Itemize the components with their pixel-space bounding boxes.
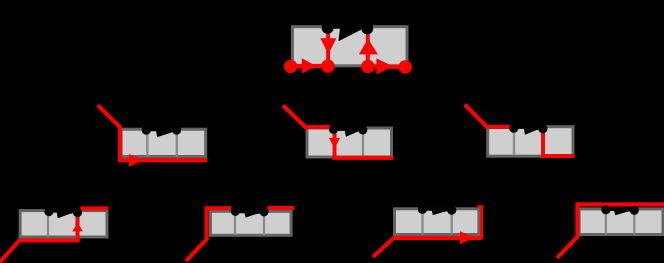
node B3 black wedge arrow (422, 207, 451, 215)
node T box (root 3-node) (292, 27, 407, 66)
node B1 divider 2 (75, 212, 77, 237)
node B3 red path (diagonal + bottom) (373, 238, 481, 257)
node B1 box (bottom 1) (20, 211, 107, 237)
node MC red vline down arrow (333, 127, 337, 159)
node MR red path (diagonal + top edge) (465, 105, 511, 127)
node T red dot 4 (399, 60, 412, 73)
node B3 red arrowhead (460, 231, 475, 244)
node B3 divider 2 (451, 210, 453, 234)
node B1 black dot left (44, 207, 53, 216)
node MR black dot right (538, 124, 547, 133)
node ML red arrowhead (129, 154, 144, 167)
node B1 black dot right (73, 208, 82, 217)
node B1 black wedge arrow (49, 209, 78, 218)
node ML divider 1 (146, 131, 148, 157)
node MR red vline (541, 129, 545, 157)
node ML black wedge arrow (146, 127, 177, 137)
node B3 box (bottom 3) (395, 209, 479, 235)
node B1 divider 1 (47, 212, 49, 237)
node MR box (middle-right) (488, 127, 573, 157)
node T red dot 3 (361, 60, 374, 73)
node B2 black dot right (259, 207, 268, 216)
node B1 red vline up arrow (76, 213, 80, 242)
node B3 red right edge line (480, 205, 483, 239)
node B4 divider 2 (633, 210, 635, 234)
node T red vline up arrow (366, 29, 370, 67)
node MC black wedge arrow (334, 126, 363, 137)
node MR divider 1 (513, 129, 515, 155)
node T red dot 2 (321, 59, 334, 72)
node MR red bottom line (541, 154, 574, 158)
node MC red bottom line (332, 156, 393, 160)
node T black dot right (361, 22, 373, 34)
node B4 black wedge arrow (606, 207, 634, 215)
node MC box (middle-center) (307, 128, 392, 157)
node B2 black dot left (231, 207, 240, 216)
node T red hline arrow left (dot to dot) (291, 64, 328, 68)
node B2 divider 2 (263, 213, 265, 235)
node ML box (middle-left) (121, 129, 206, 156)
node MC red path (diagonal + top edge) (283, 106, 330, 128)
node B2 box (bottom 2) (210, 211, 291, 235)
node B4 black dot left (601, 205, 610, 214)
node ML black dot right (172, 126, 181, 135)
node B4 red path (diagonal, left edge, top) (557, 204, 664, 258)
node B1 red path (diagonal + bottom) (0, 240, 80, 262)
node B4 black dot right (630, 206, 639, 215)
node B2 red path (diagonal, left edge, top) (186, 208, 231, 261)
node T red vline down arrow (326, 28, 330, 66)
node B1 red top line (80, 206, 108, 210)
node B4 box (bottom 4) (579, 209, 663, 235)
node T black wedge arrow (332, 25, 366, 41)
node ML red path (diagonal, left edge, bottom) (98, 105, 207, 160)
node MC divider 2 (362, 130, 364, 156)
node B2 divider 1 (234, 213, 236, 235)
node B2 red top right line (268, 206, 295, 210)
node ML black dot left (142, 126, 151, 135)
node T red hline arrow right (dot to dot) (368, 64, 405, 69)
node B3 red top stub (477, 205, 482, 208)
node MC black dot left (329, 125, 338, 134)
node B2 black wedge arrow (235, 210, 264, 218)
node T red dot 1 (284, 60, 297, 73)
node ML divider 2 (176, 131, 178, 157)
node MC black dot right (358, 125, 367, 134)
node MR black dot left (509, 124, 518, 133)
node B4 divider 1 (605, 210, 607, 234)
node MR black wedge arrow (514, 125, 543, 135)
node B3 divider 1 (421, 210, 423, 234)
node B3 black dot left (418, 205, 427, 214)
node B3 black dot right (447, 206, 456, 215)
node T black dot left (322, 22, 334, 34)
